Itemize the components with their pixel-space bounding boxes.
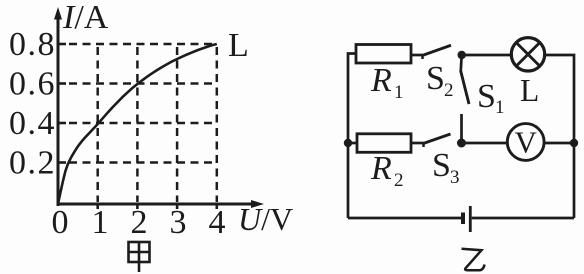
y-axis tick 0.8 (58, 43, 66, 46)
caption 乙 (circuit) (462, 249, 485, 271)
svg-text:R: R (370, 150, 392, 187)
svg-text:2: 2 (444, 80, 454, 101)
node: junction right (570, 139, 578, 147)
caption 甲 (graph) (129, 242, 150, 272)
x-axis arrowhead (251, 200, 264, 208)
svg-text:L: L (228, 27, 249, 64)
x-axis tick 1 (96, 204, 99, 209)
node: junction left (R2 branch) (344, 139, 352, 147)
svg-text:S: S (432, 147, 451, 184)
dashed gridline horizontal 0.2 (69, 161, 217, 164)
svg-text:I/A: I/A (62, 0, 109, 36)
dashed gridline vertical U=2 (136, 47, 139, 202)
switch S1 blade (461, 71, 469, 104)
wire: left junction to R2 (348, 142, 357, 145)
y-axis tick 0.6 (58, 82, 66, 85)
x-axis tick 2 (136, 204, 139, 209)
svg-text:U/V: U/V (238, 201, 293, 237)
svg-text:0.2: 0.2 (9, 145, 56, 182)
svg-text:R: R (370, 62, 392, 99)
svg-text:3: 3 (450, 167, 460, 188)
battery cell positive plate (long) (469, 206, 472, 232)
dashed gridline horizontal 0.4 (69, 122, 217, 125)
wire: R2 to switch S3 (411, 142, 424, 145)
svg-text:0: 0 (52, 204, 69, 241)
svg-text:0.6: 0.6 (9, 66, 56, 103)
wire: voltmeter to right junction (544, 142, 574, 145)
node: junction middle (S3/S1/voltmeter) (457, 139, 466, 148)
I-U characteristic curve of lamp L (58, 44, 217, 204)
switch S3 blade (423, 134, 451, 144)
resistor R2 (357, 134, 411, 153)
voltmeter V (507, 124, 544, 161)
svg-text:1: 1 (92, 204, 109, 241)
svg-text:1: 1 (394, 82, 404, 103)
svg-text:3: 3 (170, 204, 187, 241)
switch S1 upper stub (461, 55, 462, 72)
wire: junction to lamp (462, 54, 512, 57)
wire: bottom left to battery (348, 217, 461, 220)
switch S2 blade (422, 45, 452, 56)
x-axis tick 3 (176, 204, 179, 209)
svg-text:V: V (515, 125, 538, 160)
svg-text:L: L (520, 73, 539, 108)
switch S2 hinge nub (421, 55, 424, 59)
svg-text:0.8: 0.8 (9, 26, 56, 63)
svg-text:S: S (426, 60, 445, 97)
wire: R1 to switch S2 (411, 54, 423, 57)
lamp L (511, 38, 544, 71)
dashed gridline horizontal 0.8 (69, 43, 217, 46)
dashed gridline horizontal 0.6 (69, 82, 217, 85)
dashed gridline vertical U=4 (216, 47, 219, 202)
wire: junction to voltmeter (462, 142, 508, 145)
y-axis arrowhead (54, 7, 62, 20)
resistor R1 (356, 45, 411, 64)
node: junction top (S2/S1/lamp) (458, 51, 466, 59)
switch S3 hinge nub (422, 143, 425, 147)
x-axis (U axis) (57, 203, 255, 206)
y-axis tick 0.4 (58, 122, 66, 125)
wire: lamp to right vertical (545, 55, 574, 218)
svg-text:1: 1 (495, 97, 505, 118)
switch S1 lower stub (460, 114, 463, 143)
svg-text:4: 4 (209, 204, 226, 241)
dashed gridline vertical U=3 (176, 47, 179, 202)
svg-text:2: 2 (394, 170, 404, 191)
svg-text:S: S (477, 78, 496, 115)
dashed gridline vertical U=1 (96, 47, 99, 202)
x-axis tick 4 (216, 204, 219, 209)
y-axis tick 0.2 (58, 161, 66, 164)
svg-text:2: 2 (131, 204, 148, 241)
wire: left vertical (348, 54, 356, 219)
svg-text:0.4: 0.4 (9, 105, 56, 142)
y-axis (I axis) (57, 16, 60, 206)
battery cell negative plate (short) (461, 213, 465, 225)
wire: battery to bottom right (472, 217, 574, 220)
